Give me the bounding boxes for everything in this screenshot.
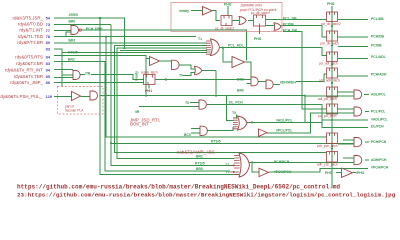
svg-text:pcl_db_latch2: pcl_db_latch2 <box>321 22 341 26</box>
wire right edge pc/db <box>338 45 368 47</box>
LABELS-LEFT <box>0 15 53 99</box>
or gate U17 <box>274 23 281 31</box>
svg-text:DL_PCH: DL_PCH <box>229 101 243 105</box>
svg-text:pc_db_latch2: pc_db_latch2 <box>215 26 234 30</box>
svg-text:PCL_ADL: PCL_ADL <box>228 44 244 48</box>
svg-text:BR0: BR0 <box>237 89 244 93</box>
wire bundle v2 <box>117 48 234 158</box>
svg-text:PHI2: PHI2 <box>327 2 335 6</box>
wire buf2 out <box>267 113 354 133</box>
latch adh_pch_latch <box>327 152 338 163</box>
wire right edge pch/db <box>338 36 368 38</box>
wire T1 stub <box>203 40 205 42</box>
wire gate NOR1 out DL_PCH <box>207 105 368 128</box>
dashed box part of decoder PLA <box>58 87 104 115</box>
wire group2 gate in2 <box>62 49 73 87</box>
svg-text:/TB: /TB <box>85 71 91 75</box>
svg-text:rdy&/T1.INT: rdy&/T1.INT <box>19 28 43 33</box>
wire phi2 vertical right <box>331 6 333 188</box>
svg-text:T0: T0 <box>179 74 183 78</box>
svg-text:adl_pcl_latch: adl_pcl_latch <box>318 97 337 101</box>
svg-text:PHI1: PHI1 <box>325 171 333 175</box>
svg-text:/PHI1: /PHI1 <box>356 171 365 175</box>
svg-text:rdy&0&Tx.TBR: rdy&0&Tx.TBR <box>14 74 43 79</box>
nand gate U1 top-left <box>71 26 79 35</box>
buffer U18 phi1 <box>342 168 353 177</box>
svg-text:https://github.com/emu-russia/: https://github.com/emu-russia/breaks/blo… <box>17 184 340 191</box>
latch pcl_pcl_latch <box>327 104 338 114</box>
svg-text:decoder PLA: decoder PLA <box>65 109 84 113</box>
svg-text:rdy&0&Tx.PSH_PUL_: rdy&0&Tx.PSH_PUL_ <box>0 94 43 99</box>
svg-text:PCL/PCL: PCL/PCL <box>371 110 386 114</box>
svg-text:RTS/5: RTS/5 <box>68 51 78 55</box>
svg-text:#ADL/PCL: #ADL/PCL <box>276 118 293 122</box>
latch pch_pch_latch <box>327 133 338 144</box>
mux M2 <box>238 116 248 130</box>
svg-text:BR0: BR0 <box>69 19 76 23</box>
wire phi2 top rail <box>228 3 233 16</box>
wire right edge pcl/adl <box>338 57 368 59</box>
wire 129 into PLA <box>54 95 90 97</box>
wire gate2 out /TB <box>80 75 138 80</box>
or gate U7 <box>195 66 203 74</box>
wire T0 gate top <box>190 101 199 103</box>
red box JSR/BRK <box>171 3 282 32</box>
buffer U5 ready chain <box>150 57 160 66</box>
wire ready latch out <box>155 79 239 81</box>
svg-text:0DH/WDH: 0DH/WDH <box>280 80 296 84</box>
wire group2 row5 <box>54 82 144 84</box>
buffer U8 big <box>232 57 245 68</box>
wire /ready into latch <box>138 79 144 81</box>
wire phi1 stub latch0 <box>259 26 261 34</box>
svg-text:RTS/5: RTS/5 <box>211 140 221 144</box>
svg-text:JSR/5: JSR/5 <box>69 13 79 17</box>
svg-text:B0B: B0B <box>237 78 244 82</box>
wire buffer1 to nand <box>159 60 172 62</box>
svg-text:PCH_DB: PCH_DB <box>283 29 297 33</box>
svg-text:rdy&0&Tx_JMP_: rdy&0&Tx_JMP_ <box>10 80 43 85</box>
nand gate U2 group2 <box>73 71 80 80</box>
wire BR2 row5 <box>54 42 207 44</box>
svg-text:T0: T0 <box>226 170 230 174</box>
svg-text:PC/DB: PC/DB <box>371 44 382 48</box>
svg-text:T0: T0 <box>232 111 236 115</box>
nand gate U10 <box>266 80 273 89</box>
latch pch_adh_latch <box>327 68 338 78</box>
and gate A1 <box>354 90 362 99</box>
svg-text:PCH_DBH: PCH_DBH <box>86 27 103 31</box>
svg-text:RTS/5: RTS/5 <box>195 162 205 166</box>
wire box pcl_db out <box>232 19 327 20</box>
wire pc/db mid <box>266 26 327 37</box>
wire group2 gate in1 <box>54 68 73 70</box>
wire gate NOR2 out <box>207 127 233 131</box>
svg-text:pch_pch_latch: pch_pch_latch <box>317 144 338 148</box>
svg-text:T0: T0 <box>185 101 189 105</box>
wire pch_db <box>283 32 327 109</box>
wire T0 mid right <box>233 115 237 118</box>
svg-text:DL/PCH: DL/PCH <box>371 125 384 129</box>
wire right edge pch/adh <box>338 75 368 77</box>
wire nand out <box>179 65 195 69</box>
wire pch_pch gate <box>338 140 369 144</box>
svg-text:T1: T1 <box>198 37 202 41</box>
and gate A4 <box>354 156 362 165</box>
wire adl_pcl gate <box>338 92 369 95</box>
svg-text:#ADL/PCL: #ADL/PCL <box>371 117 388 121</box>
svg-text:T1: T1 <box>226 163 230 167</box>
svg-text:PC/DB: PC/DB <box>283 23 294 27</box>
wire B0B gate ins <box>233 79 251 83</box>
nand gate U6 ready chain <box>172 60 180 69</box>
svg-text:pc_db_latch0: pc_db_latch0 <box>251 11 270 15</box>
svg-text:pcl_adl_latch: pcl_adl_latch <box>319 62 338 66</box>
wire ready to buffer <box>191 11 220 21</box>
svg-text:77: 77 <box>46 28 50 33</box>
wire row6 83 <box>54 49 207 53</box>
svg-text:/IR: /IR <box>135 110 140 114</box>
svg-text:ADL/PCL: ADL/PCL <box>371 93 386 97</box>
mux M1 tall <box>211 39 220 56</box>
wire group2 row1 <box>54 56 150 96</box>
wire PCH_DBH long <box>81 18 246 61</box>
wire mux1 feed b <box>115 46 327 153</box>
latch ready_latch <box>144 75 156 85</box>
svg-text:#PCH/PCH: #PCH/PCH <box>371 165 389 169</box>
svg-text:BR2: BR2 <box>69 39 76 43</box>
svg-text:rdy&P/T2.BR: rdy&P/T2.BR <box>17 40 43 45</box>
svg-text:BR0: BR0 <box>196 167 203 171</box>
svg-text:rdy&/T1.TED: rdy&/T1.TED <box>18 34 43 39</box>
svg-text:pch_adh_latch: pch_adh_latch <box>319 78 340 82</box>
svg-text:rdy&0/T5.RTS: rdy&0/T5.RTS <box>15 54 43 59</box>
svg-text:pcl_pcl_latch: pcl_pcl_latch <box>318 114 337 118</box>
wire right edge pcl/db <box>338 18 368 20</box>
and gate A3 <box>354 138 362 147</box>
and gate U4 in PLA box <box>90 91 98 100</box>
svg-text:80: 80 <box>46 40 50 45</box>
svg-text:adh_pch_latch: adh_pch_latch <box>317 162 338 166</box>
svg-text:PCL/DB: PCL/DB <box>371 17 384 21</box>
mux M3 <box>239 153 250 177</box>
latch adl_pcl_latch <box>327 87 338 97</box>
wire mux3 out <box>249 162 354 172</box>
wire pcl_pcl gate <box>338 109 369 111</box>
svg-text:rdy&0&T3.BR: rdy&0&T3.BR <box>16 61 43 66</box>
wire phi1 buf <box>336 172 356 174</box>
wire row1 54 <box>54 18 239 175</box>
svg-text:ready_latch: ready_latch <box>141 71 158 75</box>
wire gate NOR2 inputs <box>191 129 200 133</box>
latch pcl_adl_latch <box>327 52 338 62</box>
svg-text:129: 129 <box>46 94 53 99</box>
wire /IR line <box>139 106 199 108</box>
latch pch_db_latch <box>327 31 338 41</box>
buffer U14 <box>259 168 269 176</box>
wire nand3 to nand4 <box>258 80 266 82</box>
wire or1 out <box>202 71 216 96</box>
svg-text:#PCH/PCH: #PCH/PCH <box>274 170 292 174</box>
svg-text:PCH/ADH: PCH/ADH <box>371 73 387 77</box>
wire row2b gate input <box>54 30 71 36</box>
svg-text:rd&K3/T5.JSR_: rd&K3/T5.JSR_ <box>12 15 43 20</box>
nor gate U12 <box>200 126 207 135</box>
svg-text:/ready: /ready <box>135 71 139 81</box>
svg-text:rdy&0/T0.BD: rdy&0/T0.BD <box>18 22 43 27</box>
or gate U16 in box <box>239 17 246 25</box>
svg-text:23:https://github.com/emu-russ: 23:https://github.com/emu-russia/breaks/… <box>17 192 396 199</box>
svg-text:#PCL/PCL: #PCL/PCL <box>276 129 292 133</box>
buffer U3 in PLA box <box>72 92 81 101</box>
svg-text:/ready: /ready <box>179 9 189 13</box>
wire mux1 out PCL_ADL <box>220 48 327 56</box>
wire latch phi1 <box>148 85 150 89</box>
svg-text:PCH/PCH: PCH/PCH <box>371 140 387 144</box>
and gate A2 <box>354 107 362 116</box>
svg-text:BOK_INT: BOK_INT <box>130 122 149 127</box>
wire group2 gate in3 <box>54 77 73 79</box>
svg-text:BR2: BR2 <box>196 155 203 159</box>
svg-text:ADH/PCH: ADH/PCH <box>371 158 387 162</box>
mux M2 pins <box>233 118 238 129</box>
svg-text:BC0: BC0 <box>184 133 191 137</box>
latch pc_db_latch0 <box>254 15 266 26</box>
wire bundle v1 <box>111 24 354 165</box>
wire nand4 out <box>273 74 327 85</box>
wire big buf top <box>223 48 232 62</box>
svg-text:pch_db_latch: pch_db_latch <box>320 41 339 45</box>
wire bundle v3 <box>120 50 207 52</box>
wire row4 78 <box>54 37 327 137</box>
wire PLA out long <box>100 96 305 121</box>
mux M1 pins <box>206 41 211 54</box>
nor gate U11 <box>199 100 206 109</box>
svg-text:PCH/PCH: PCH/PCH <box>274 160 290 164</box>
latch pc_db_latch2 <box>221 16 232 26</box>
nand gate U9 <box>251 77 258 86</box>
svg-text:PHI1: PHI1 <box>254 37 262 41</box>
wire T0 stub <box>183 72 195 75</box>
wire buf3 out <box>269 169 368 173</box>
buffer U15 in box <box>203 7 213 16</box>
svg-text:PCH/DB: PCH/DB <box>371 34 385 38</box>
svg-text:PCL/ADL: PCL/ADL <box>371 55 386 59</box>
wire group2 row2 <box>54 62 230 172</box>
svg-text:PCL_DB: PCL_DB <box>283 17 297 21</box>
svg-text:JSR/BRK INTs: JSR/BRK INTs <box>239 4 262 8</box>
wire adh_pch gate <box>343 158 369 160</box>
latch pcl_db_latch2 <box>327 12 338 22</box>
svg-text:BR2: BR2 <box>68 58 75 62</box>
svg-text:PHI2: PHI2 <box>224 2 232 6</box>
buffer U13 <box>259 129 268 137</box>
wire mux2 out junction <box>247 96 368 122</box>
mux M3 pins <box>230 156 240 175</box>
wire row2 73 <box>54 23 111 25</box>
wire big buf out <box>245 62 251 79</box>
svg-text:rdy&0&Tx_RTI_INT: rdy&0&Tx_RTI_INT <box>5 67 44 72</box>
svg-text:PHI1: PHI1 <box>145 89 152 93</box>
